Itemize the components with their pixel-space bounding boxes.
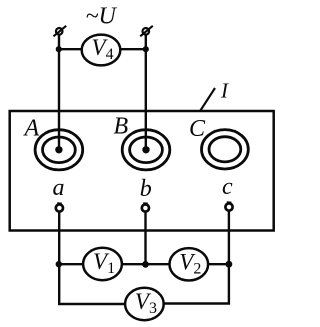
wire right horizontal (V4 to dot) (120, 48, 146, 50)
box I (device enclosure) (10, 111, 274, 231)
wire column a (terminal a down and across to V3) (59, 212, 125, 305)
svg-text:~U: ~U (86, 4, 118, 30)
svg-text:a: a (53, 175, 65, 201)
terminal b (142, 203, 149, 211)
junction dot b between V1 and V2 (142, 261, 149, 268)
terminal right (slashed circle) (140, 26, 153, 37)
junction dot right of V4 (143, 46, 149, 52)
voltmeter V2 (170, 248, 209, 280)
terminal c (225, 202, 232, 210)
wire column b (terminal b down to V1/V2 row) (144, 212, 146, 265)
winding A (35, 130, 83, 170)
junction dot left of V4 (56, 46, 62, 52)
junction dot c/V2 (226, 261, 233, 268)
wire left vertical (top terminal to winding A) (58, 35, 60, 150)
winding B (122, 130, 170, 170)
svg-text:b: b (140, 176, 152, 202)
wire column c (terminal c down and across to V3) (164, 211, 229, 304)
junction dot a/V1 (56, 261, 62, 267)
wire V1 row (a column to c column) (59, 263, 229, 265)
wire right vertical (top terminal to winding B) (145, 35, 147, 150)
svg-text:B: B (114, 114, 129, 140)
svg-text:C: C (189, 116, 206, 142)
terminal a (56, 203, 63, 211)
svg-text:c: c (222, 174, 233, 200)
wire left horizontal (dot to V4) (59, 48, 83, 50)
pointer line to I (200, 88, 215, 112)
svg-text:A: A (23, 116, 40, 142)
voltmeter V4 (82, 35, 121, 66)
terminal left (slashed circle) (54, 26, 67, 37)
voltmeter V1 (83, 248, 122, 280)
voltmeter V3 (125, 288, 164, 320)
svg-text:I: I (220, 79, 229, 103)
winding C (202, 130, 249, 169)
